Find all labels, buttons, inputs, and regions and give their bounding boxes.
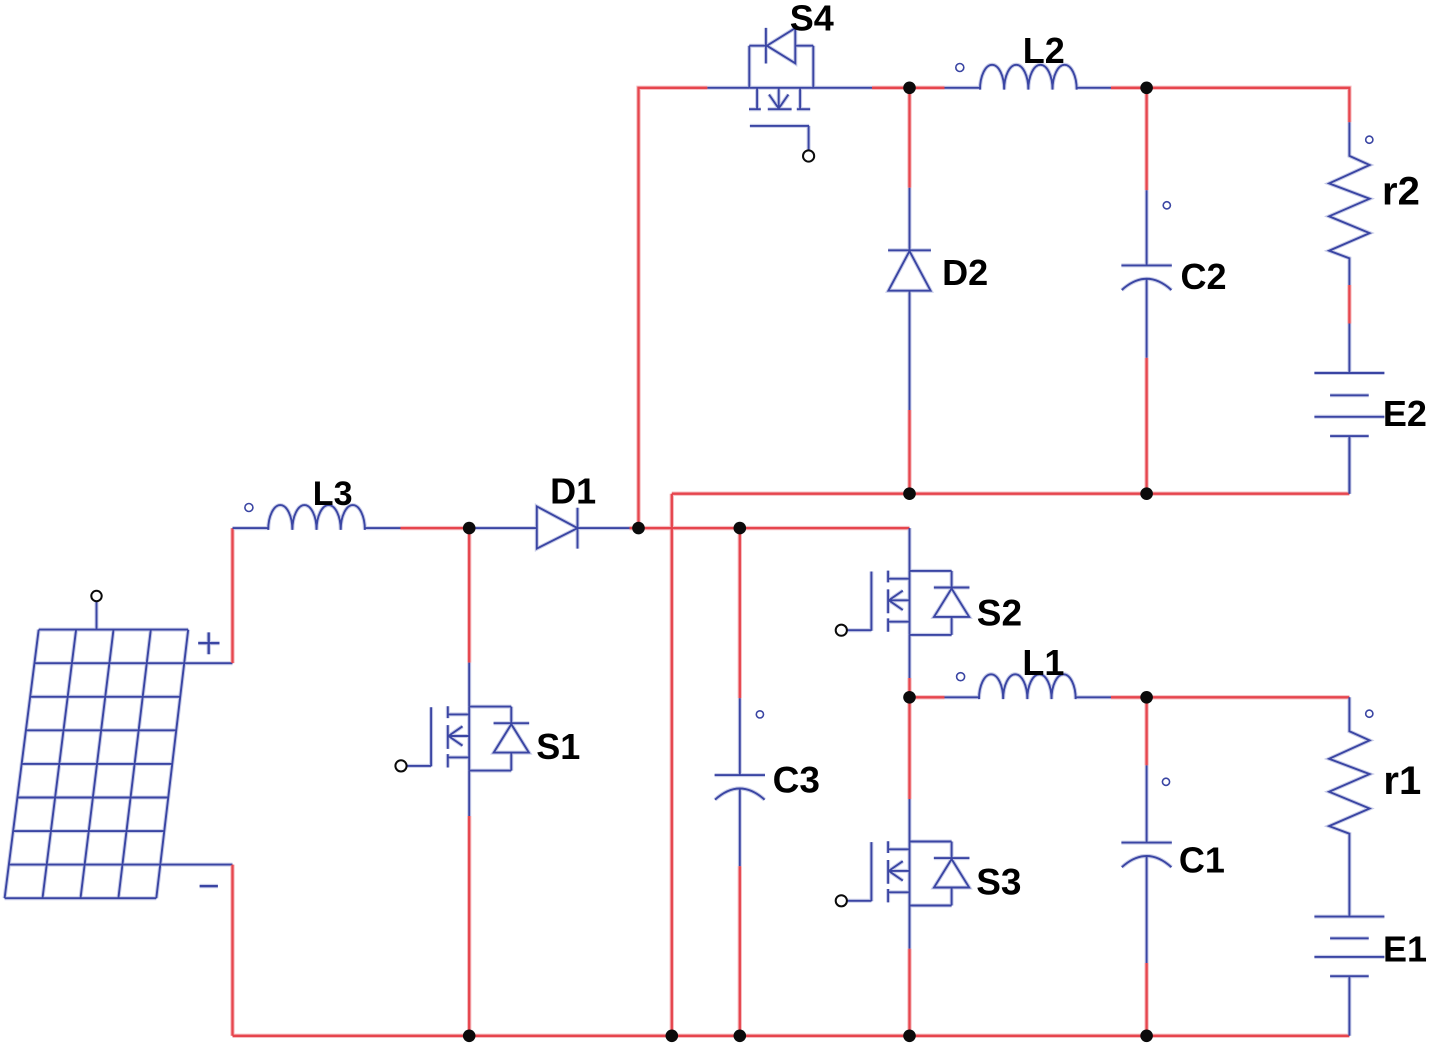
wire S1 drain feed <box>468 528 470 663</box>
resistor r1 <box>1329 697 1370 916</box>
svg-text:C1: C1 <box>1179 839 1225 880</box>
svg-text:D1: D1 <box>550 471 596 512</box>
wire S2 source to junction <box>908 678 910 697</box>
wire PV+ riser <box>231 528 233 663</box>
capacitor C2 pin circle <box>1163 202 1170 209</box>
wire S1 source feed <box>468 816 470 1036</box>
wire S4 source to D2 junction <box>872 87 910 89</box>
inductor L3 pin circle <box>245 504 253 512</box>
wire junction to S3 drain <box>908 697 910 799</box>
svg-text:C2: C2 <box>1181 256 1227 297</box>
svg-text:S3: S3 <box>976 861 1021 902</box>
inductor L2 <box>945 65 1112 90</box>
wire L3 to S1 junction <box>401 527 470 529</box>
wire L2 to C2 junction <box>1111 87 1147 89</box>
capacitor C2 <box>1121 190 1171 358</box>
inductor L2 pin circle <box>956 64 964 72</box>
junction S2/S3/L1 <box>903 691 916 704</box>
wire C2 top feed <box>1145 88 1147 190</box>
capacitor C3 pin circle <box>756 711 763 718</box>
MOSFET S3 <box>847 841 970 905</box>
junction C3/bus <box>734 1030 747 1043</box>
svg-text:L1: L1 <box>1022 642 1064 683</box>
wire r2 to E2 gap <box>1348 285 1350 324</box>
MOSFET S1 <box>407 706 530 770</box>
wire D1 cathode to junction <box>630 527 639 529</box>
wire C1 junction to r1 corner <box>1147 696 1350 698</box>
inductor L1 pin circle <box>957 673 965 681</box>
PV plus sign <box>198 632 219 654</box>
PV top terminal circle <box>91 591 101 601</box>
svg-text:C3: C3 <box>773 760 820 801</box>
MOSFET S4 <box>749 28 813 151</box>
svg-text:E1: E1 <box>1383 929 1427 970</box>
resistor r1 pin circle <box>1366 710 1373 717</box>
wire C3 top feed <box>739 528 741 698</box>
wire D2 anode feed <box>908 88 910 188</box>
MOSFET S2 <box>847 571 970 635</box>
junction return/bus <box>666 1030 679 1043</box>
capacitor C3 <box>715 698 765 866</box>
svg-text:E2: E2 <box>1383 393 1427 434</box>
wire D2 cathode feed <box>908 410 910 494</box>
junction S3/bus <box>903 1030 916 1043</box>
wire L1 to C1 junction <box>1111 696 1147 698</box>
wire S4 drain lead <box>707 87 749 89</box>
svg-text:r1: r1 <box>1383 759 1421 803</box>
wire S4 riser <box>639 88 708 528</box>
junction S1 source/bus <box>463 1030 476 1043</box>
wire C2 bottom feed <box>1145 358 1147 494</box>
svg-text:D2: D2 <box>942 252 988 293</box>
wire PV- riser <box>231 865 233 1036</box>
solar panel PV array <box>5 630 189 899</box>
battery E2 <box>1314 324 1384 494</box>
svg-text:L2: L2 <box>1023 30 1065 71</box>
svg-text:S4: S4 <box>790 0 834 38</box>
wire L1 junction lead <box>910 696 945 698</box>
wire C1 top feed <box>1145 697 1147 765</box>
svg-text:r2: r2 <box>1382 170 1420 214</box>
junction L1/C1 <box>1140 691 1153 704</box>
wire S2 source lead <box>909 635 911 678</box>
diode D1 <box>469 506 629 548</box>
inductor L3 <box>233 505 401 530</box>
battery E1 <box>1314 917 1384 1036</box>
wire bottom bus <box>233 1035 1350 1037</box>
wire S2 drain lead <box>909 528 911 571</box>
junction S4/D2/L2 <box>903 82 916 95</box>
wire return riser <box>671 494 673 1036</box>
wire S1 leads <box>468 663 470 816</box>
wire C1 bottom feed <box>1145 963 1147 1036</box>
junction L3/S1/D1 <box>463 522 476 535</box>
wire S4 source lead <box>813 87 872 89</box>
wire C2 junction to r2 corner <box>1147 88 1350 123</box>
svg-text:S1: S1 <box>536 726 580 767</box>
wire C3 bottom feed <box>739 866 741 1036</box>
PV minus sign <box>200 885 218 887</box>
wire central bus to S2 corner <box>639 527 910 529</box>
wire S3 leads <box>909 799 911 949</box>
capacitor C1 pin circle <box>1162 778 1169 785</box>
resistor r2 <box>1329 122 1370 285</box>
wire E2 bottom lead <box>1348 436 1350 494</box>
svg-text:L3: L3 <box>313 475 353 513</box>
inductor L1 <box>945 674 1112 699</box>
wire PV+ lead <box>184 662 232 664</box>
wire PV- lead <box>160 864 232 866</box>
capacitor C1 <box>1121 765 1171 963</box>
junction D2 anode <box>903 487 916 500</box>
junction D1/S4 riser <box>632 522 645 535</box>
wire return bus y494 <box>672 493 1350 495</box>
junction L2/C2 <box>1140 82 1153 95</box>
junction C1/bus <box>1140 1030 1153 1043</box>
diode D2 <box>888 188 931 410</box>
wire S3 source to bottom <box>908 949 910 1036</box>
PV top terminal lead <box>96 601 98 630</box>
svg-text:S2: S2 <box>977 593 1022 634</box>
resistor r2 pin circle <box>1366 136 1373 143</box>
wire D2 junction to L2 <box>910 87 945 89</box>
junction C3 top <box>734 522 747 535</box>
junction C2 bottom <box>1140 487 1153 500</box>
